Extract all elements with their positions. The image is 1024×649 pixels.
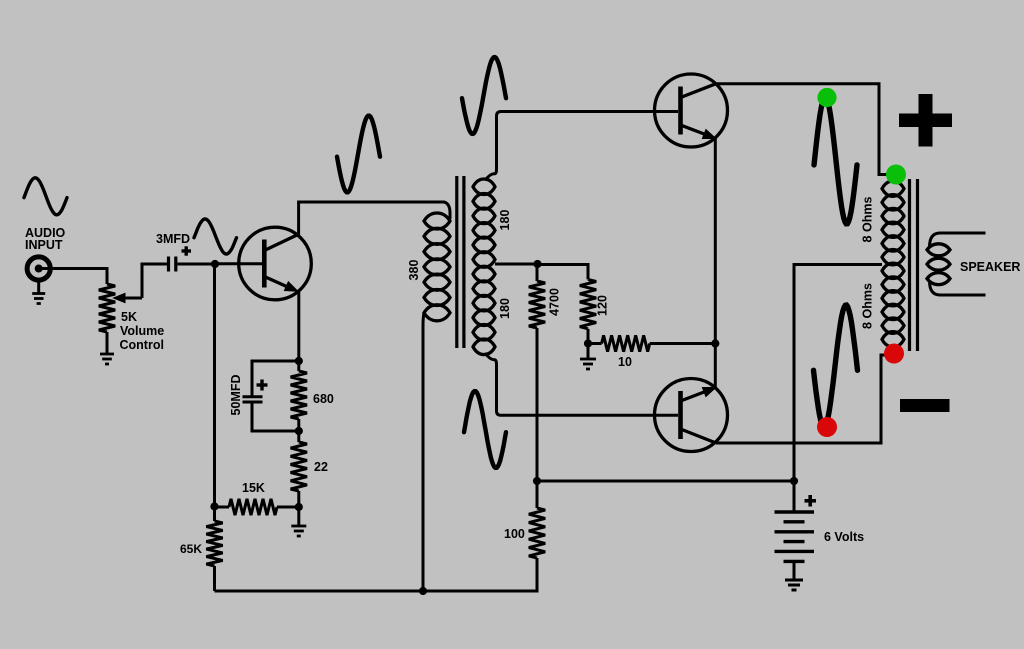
label 180 (bottom half) xyxy=(498,298,512,319)
label 4700 xyxy=(548,288,562,316)
node F (rail / transformer primary return) xyxy=(419,587,427,595)
node G (center tap) xyxy=(533,260,541,268)
node D (22/15K/ground) xyxy=(295,503,303,511)
capacitor C2 50MFD xyxy=(243,397,263,402)
transistor Q2 collector line xyxy=(681,84,717,98)
wire tap to 120 xyxy=(538,265,589,280)
resistor R7 120 xyxy=(580,279,596,343)
label 6 Volts xyxy=(824,530,864,544)
transistor Q1 emitter line with arrow xyxy=(264,277,298,292)
transistor Q2 base bar xyxy=(678,87,683,135)
wire Q2 emitter down to node I xyxy=(714,138,717,344)
sine wave S4 top phase xyxy=(462,57,506,134)
svg-text:8 Ohms: 8 Ohms xyxy=(861,283,875,329)
ground (emitter network) xyxy=(291,526,306,536)
svg-text:100: 100 xyxy=(504,527,525,541)
svg-text:680: 680 xyxy=(313,392,334,406)
label 5K Volume Control xyxy=(120,310,165,352)
wire cap to base node xyxy=(178,263,216,266)
ground (bias network) xyxy=(580,359,596,369)
resistor R8 10 xyxy=(588,335,715,351)
node H (120/10/ground) xyxy=(584,339,592,347)
node I (joint emitters) xyxy=(711,339,719,347)
transistor Q1 collector line xyxy=(264,234,298,250)
svg-text:5K: 5K xyxy=(121,310,137,324)
svg-text:3MFD: 3MFD xyxy=(156,232,190,246)
label 15K xyxy=(242,481,265,495)
label 10 xyxy=(618,355,632,369)
minus symbol (output polarity) xyxy=(900,399,950,412)
svg-text:180: 180 xyxy=(498,298,512,319)
sine wave S3 at Q1 collector xyxy=(337,116,380,193)
node K (4700/100 junction) xyxy=(533,477,541,485)
svg-text:SPEAKER: SPEAKER xyxy=(960,260,1020,274)
wire T1 secondary bottom to Q3 base xyxy=(485,353,678,415)
svg-text:15K: 15K xyxy=(242,481,265,495)
wire node B to bypass cap xyxy=(252,361,299,396)
transistor Q1 circle xyxy=(239,227,312,300)
svg-text:Control: Control xyxy=(120,338,164,352)
transistor Q3 base bar xyxy=(678,391,683,439)
sine wave S1 input signal xyxy=(24,178,67,215)
wire T2 center tap to battery xyxy=(794,265,882,482)
wire bypass cap bottom xyxy=(252,402,299,431)
wire node A down to bias divider xyxy=(213,264,216,507)
battery B1 6 Volts xyxy=(775,512,815,561)
svg-text:65K: 65K xyxy=(180,542,202,556)
wire Q3 emitter up to node I xyxy=(714,344,717,389)
wire rail to battery node xyxy=(537,480,794,483)
wire T1 primary top lead xyxy=(441,202,450,219)
label AUDIO INPUT xyxy=(25,226,66,252)
svg-text:180: 180 xyxy=(498,210,512,231)
sine wave S6 output bottom (negative half) xyxy=(814,305,858,427)
wire T1 primary bottom lead xyxy=(423,313,424,591)
transistor Q3 circle xyxy=(655,379,728,452)
wire Q1 collector up xyxy=(299,202,441,235)
input jack J1 xyxy=(27,257,50,280)
resistor R2 680 xyxy=(291,361,307,431)
svg-text:120: 120 xyxy=(596,295,610,316)
wire speaker lead bottom xyxy=(930,281,986,295)
label 120 xyxy=(596,295,610,316)
plus sign (battery polarity) xyxy=(805,495,817,507)
wire node D stem xyxy=(297,507,300,526)
red dot (S6 trough) xyxy=(817,417,837,437)
red dot (T2 bottom terminal) xyxy=(884,344,904,364)
transistor Q2 circle xyxy=(655,74,728,147)
wire battery to ground xyxy=(793,561,796,579)
pot wiper arrow xyxy=(114,293,143,302)
ground (battery) xyxy=(785,580,803,590)
wire Q2 collector to output transformer top xyxy=(716,84,888,175)
ground (volume pot) xyxy=(100,354,114,364)
node C (680/22 junction) xyxy=(295,427,303,435)
label 180 (top half) xyxy=(498,210,512,231)
potentiometer R1 5K body xyxy=(99,284,115,332)
transformer T1 secondary winding xyxy=(473,179,495,355)
node E (65K/15K junction) xyxy=(210,502,218,510)
wire bottom rail xyxy=(215,558,538,591)
ground (input jack) xyxy=(32,294,45,304)
plus symbol (output polarity) xyxy=(899,94,952,147)
label 22 xyxy=(314,460,328,474)
plus sign (3MFD polarity) xyxy=(182,246,192,255)
wire Q1 emitter down xyxy=(297,290,300,361)
sine wave S5 bottom phase xyxy=(464,391,506,468)
transformer T2 secondary winding (speaker) xyxy=(927,244,950,285)
wire T1 secondary top to Q2 base xyxy=(485,112,678,181)
svg-text:50MFD: 50MFD xyxy=(229,375,243,416)
svg-text:Volume: Volume xyxy=(120,324,164,338)
node B (Q1 emitter) xyxy=(295,357,303,365)
label 100 xyxy=(504,527,525,541)
svg-text:6 Volts: 6 Volts xyxy=(824,530,864,544)
svg-text:8 Ohms: 8 Ohms xyxy=(861,197,875,243)
svg-text:INPUT: INPUT xyxy=(25,238,63,252)
wire Q3 collector to output transformer bottom xyxy=(716,355,888,443)
sine wave S2 after volume control xyxy=(194,219,237,254)
wire jack to volume pot xyxy=(41,269,107,285)
wire jack stem xyxy=(37,280,40,293)
svg-text:10: 10 xyxy=(618,355,632,369)
wire speaker lead top xyxy=(930,233,986,247)
label 380 xyxy=(407,260,421,281)
node A (base of Q1) xyxy=(211,260,219,268)
transformer T2 core xyxy=(910,179,918,351)
plus sign (50MFD polarity) xyxy=(257,380,268,391)
label 8 Ohms (bottom) xyxy=(861,283,875,329)
svg-text:380: 380 xyxy=(407,260,421,281)
wire battery top xyxy=(793,481,796,512)
transformer T2 primary winding xyxy=(882,181,904,347)
node J (battery positive) xyxy=(790,477,798,485)
wire T1 center tap xyxy=(495,263,538,266)
label 3MFD xyxy=(156,232,190,246)
sine wave S7 output top (positive half) xyxy=(814,97,857,224)
transistor Q3 emitter line with arrow xyxy=(681,388,716,402)
transformer T1 core xyxy=(457,176,464,348)
resistor R5 65K xyxy=(206,507,222,592)
wire node A to Q1 base xyxy=(215,262,262,265)
label 65K xyxy=(180,542,202,556)
wire pot bottom xyxy=(106,332,109,354)
transistor Q3 collector line xyxy=(681,429,717,443)
transformer T1 primary winding 380 xyxy=(424,213,450,321)
resistor R6 4700 xyxy=(529,264,545,481)
capacitor C1 3MFD xyxy=(169,257,176,272)
label 50MFD xyxy=(229,375,243,416)
wire node H stem xyxy=(587,344,590,359)
label 680 xyxy=(313,392,334,406)
label SPEAKER xyxy=(960,260,1020,274)
wire wiper to coupling cap xyxy=(142,264,167,298)
resistor R3 22 xyxy=(291,431,307,507)
resistor R9 100 xyxy=(529,481,545,558)
transistor Q2 emitter line with arrow xyxy=(681,125,716,139)
resistor R4 15K xyxy=(215,499,299,515)
transistor Q1 base bar xyxy=(262,240,267,288)
svg-text:4700: 4700 xyxy=(548,288,562,316)
green dot (T2 top terminal) xyxy=(886,165,906,185)
label 8 Ohms (top) xyxy=(861,197,875,243)
svg-text:22: 22 xyxy=(314,460,328,474)
green dot (S7 peak) xyxy=(817,88,836,107)
